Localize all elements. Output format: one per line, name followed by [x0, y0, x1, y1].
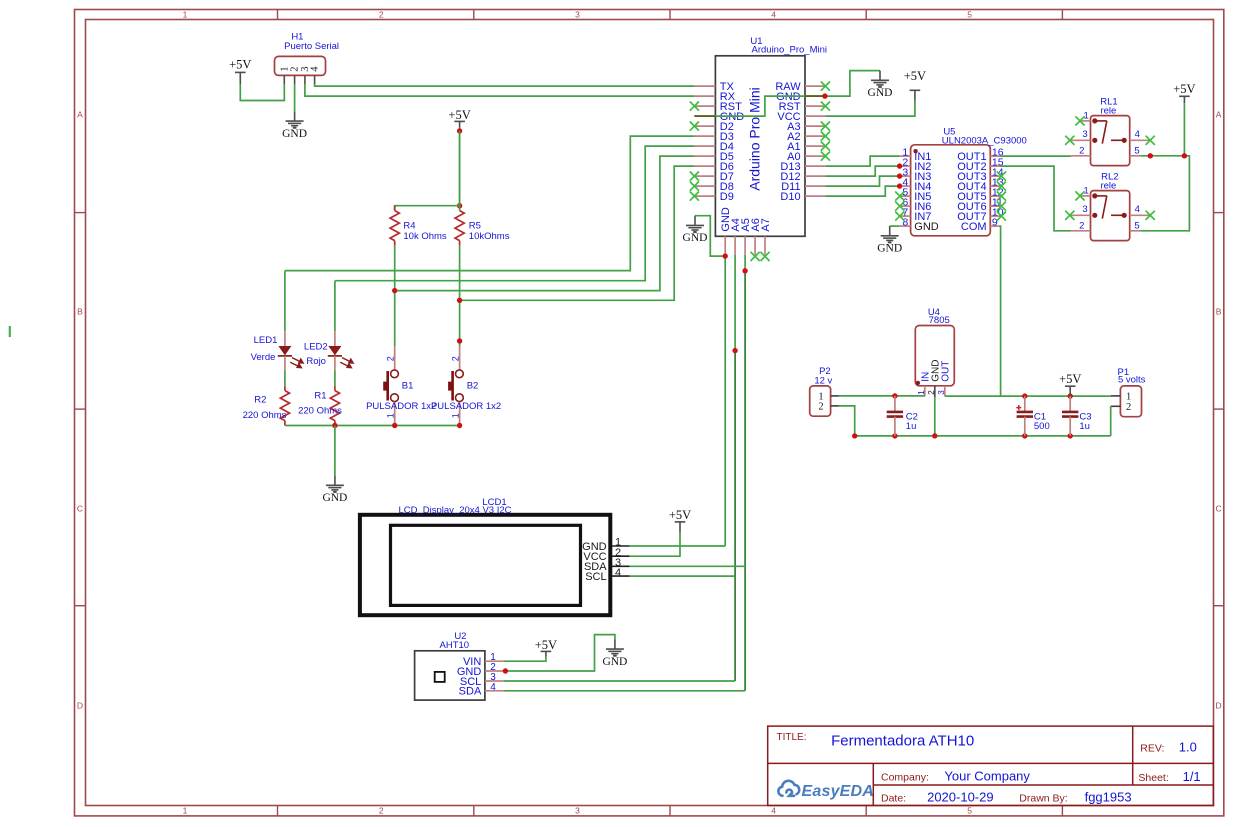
- display LCD1 outer body: [360, 515, 610, 615]
- svg-text:2: 2: [818, 402, 823, 413]
- junction at R4/R5 split: [457, 203, 462, 208]
- svg-text:+5V: +5V: [535, 638, 557, 652]
- svg-text:12 v: 12 v: [814, 375, 832, 386]
- svg-text:Rojo: Rojo: [306, 356, 326, 367]
- wire U2 VIN to +5V: [504, 657, 546, 662]
- wire U1 D11 to U5 IN3: [825, 176, 899, 186]
- svg-text:GND: GND: [322, 492, 347, 504]
- ground GND at U2: [606, 640, 624, 654]
- capacitor C2: [894, 396, 896, 412]
- svg-text:Arduino Pro Mini: Arduino Pro Mini: [747, 87, 763, 191]
- junction C2 top: [892, 393, 897, 398]
- resistor R1: [334, 386, 336, 390]
- wire U1 D10 to U5 IN4: [825, 186, 899, 196]
- svg-text:1/1: 1/1: [1183, 769, 1201, 784]
- svg-text:PULSADOR 1x2: PULSADOR 1x2: [431, 401, 501, 412]
- svg-text:+5V: +5V: [1059, 372, 1081, 386]
- svg-text:220 Ohms: 220 Ohms: [243, 410, 287, 421]
- RL2 contact symbol: [1093, 194, 1126, 219]
- resistor R2: [284, 386, 286, 390]
- wire LCD SDA to A5 column: [630, 565, 745, 567]
- wire LED2 to R1: [334, 370, 336, 386]
- wire LCD SCL to A4 column: [630, 575, 735, 577]
- junction on B2 column: [457, 338, 462, 343]
- svg-text:REV:: REV:: [1140, 743, 1164, 755]
- svg-text:LED1: LED1: [254, 335, 278, 346]
- svg-text:GND: GND: [877, 243, 902, 255]
- resistor R5: [459, 131, 461, 211]
- wire bus to LED2: [334, 281, 336, 332]
- junction on A4 column: [732, 348, 737, 353]
- sensor U2 AHT10 body: [415, 651, 485, 700]
- svg-text:1: 1: [917, 390, 926, 395]
- wire U4 GND to ground rail: [934, 397, 936, 436]
- svg-text:2: 2: [927, 390, 936, 395]
- wire H1 pin 4 to U1 TX: [315, 84, 695, 86]
- wire R4 to B1: [394, 245, 396, 346]
- ground GND below rail: [326, 476, 344, 490]
- power flag +5V at relays: [1179, 96, 1190, 103]
- wire U1 A4 vertical to AHT10 SCL: [734, 255, 736, 351]
- U5 right pin stubs: [990, 156, 1001, 226]
- svg-text:B2: B2: [467, 380, 479, 391]
- junction U2 GND pin: [503, 668, 508, 673]
- wire RL1 pin 5 to +5V and RL2 pin 5: [1140, 156, 1189, 231]
- svg-text:4: 4: [615, 567, 621, 579]
- svg-text:4: 4: [1135, 129, 1140, 140]
- wire LED1 to R2: [284, 370, 286, 386]
- svg-text:2: 2: [1079, 220, 1084, 231]
- ground GND below U1 left: [686, 216, 704, 230]
- junction +5V relay rail: [1182, 153, 1187, 158]
- power flag +5V at C3: [1065, 386, 1076, 396]
- svg-text:4: 4: [490, 682, 496, 693]
- svg-text:9: 9: [992, 217, 998, 229]
- svg-text:1: 1: [1126, 392, 1131, 403]
- svg-text:GND: GND: [602, 656, 627, 668]
- svg-text:3: 3: [1082, 129, 1087, 140]
- U1 no-connect marks A6 A7: [751, 252, 760, 261]
- svg-text:LCD_Display_20x4 V3 I2C: LCD_Display_20x4 V3 I2C: [398, 505, 511, 516]
- junction rail R1: [332, 423, 337, 428]
- junction RL1 pin5 wire: [1148, 153, 1153, 158]
- wire U4 OUT to P1 pin1: [945, 395, 1111, 397]
- wire P2 pin2 to ground rail: [839, 406, 855, 436]
- wire LCD VCC to +5V: [630, 532, 680, 556]
- svg-text:GND: GND: [282, 128, 307, 140]
- junction C3 top +5V: [1068, 393, 1073, 398]
- svg-text:Arduino_Pro_Mini: Arduino_Pro_Mini: [752, 45, 828, 56]
- U2 orientation square: [435, 672, 445, 682]
- wire overlap olive on U1 GND stubs: [694, 115, 715, 117]
- U4 pin1 marker dot: [916, 381, 920, 385]
- U5 left pin stubs: [900, 156, 911, 226]
- svg-text:5: 5: [967, 806, 972, 816]
- svg-text:4: 4: [771, 806, 776, 816]
- LED LED1 Verde: [284, 331, 286, 346]
- svg-text:A: A: [1216, 109, 1222, 119]
- svg-text:2: 2: [451, 356, 461, 361]
- svg-text:fgg1953: fgg1953: [1085, 789, 1132, 804]
- wire LCD GND to U1 GND column: [630, 545, 725, 547]
- svg-text:1: 1: [386, 413, 396, 418]
- ground GND at U5: [881, 226, 899, 240]
- title block outline: [768, 726, 1214, 805]
- wire U2 GND to ground: [504, 635, 615, 671]
- svg-text:1: 1: [183, 806, 188, 816]
- svg-text:C: C: [1216, 503, 1222, 513]
- power flag +5V at H1: [235, 72, 246, 84]
- svg-text:TITLE:: TITLE:: [777, 732, 807, 743]
- svg-text:220 Ohms: 220 Ohms: [298, 406, 342, 417]
- svg-text:3: 3: [575, 806, 580, 816]
- svg-text:4: 4: [310, 66, 321, 72]
- svg-text:SCL: SCL: [585, 571, 606, 583]
- wire U1 D13 to U5 IN1: [825, 156, 899, 166]
- svg-text:2: 2: [379, 806, 384, 816]
- svg-text:2020-10-29: 2020-10-29: [927, 789, 994, 804]
- relay RL2 body: [1091, 191, 1130, 241]
- svg-text:1.0: 1.0: [1179, 739, 1197, 754]
- wire U1 D12 to U5 IN2: [825, 166, 899, 176]
- junction at IN4: [897, 183, 902, 188]
- svg-text:A7: A7: [760, 218, 772, 231]
- svg-text:C: C: [77, 503, 83, 513]
- junction at U1 GND right pin: [822, 93, 827, 98]
- svg-text:10kOhms: 10kOhms: [469, 231, 510, 242]
- U1 left pin stubs: [694, 86, 715, 196]
- svg-text:2: 2: [386, 356, 396, 361]
- svg-text:+5V: +5V: [669, 508, 691, 522]
- junction below +5V flag: [457, 128, 462, 133]
- ground GND at H1: [286, 111, 304, 125]
- relay RL1 body: [1091, 116, 1130, 166]
- svg-text:D: D: [1216, 700, 1222, 710]
- wire U1 D5 to B1 bus: [395, 156, 695, 291]
- svg-text:A: A: [77, 109, 83, 119]
- svg-text:R1: R1: [314, 391, 326, 402]
- wire rail up to P1 pin2: [1110, 406, 1112, 436]
- power flag +5V at U2: [541, 651, 552, 656]
- U5 pin1 marker dot: [913, 149, 917, 153]
- svg-text:rele: rele: [1100, 180, 1116, 191]
- connector H1 Puerto Serial: [275, 56, 326, 75]
- svg-text:B: B: [77, 306, 83, 316]
- svg-text:2: 2: [1079, 145, 1084, 156]
- wire U1 D6 to B2 bus: [460, 166, 695, 300]
- U1 bottom pin stubs: [725, 236, 765, 254]
- svg-text:2: 2: [379, 9, 384, 19]
- wire U1 GND bottom vertical to LCD GND: [724, 255, 726, 546]
- svg-text:500: 500: [1034, 421, 1050, 432]
- wire bus to LED1: [284, 271, 286, 332]
- svg-text:SDA: SDA: [459, 686, 482, 698]
- svg-text:1: 1: [183, 9, 188, 19]
- power flag +5V at LCD: [675, 522, 686, 533]
- svg-text:+5V: +5V: [448, 108, 470, 122]
- op-amp U1 Arduino_Pro_Mini body: [715, 56, 805, 237]
- junction R4 bus D5: [392, 288, 397, 293]
- svg-text:AHT10: AHT10: [440, 640, 470, 651]
- junction rail B2: [457, 423, 462, 428]
- wire ground rail LEDs and buttons: [285, 425, 460, 427]
- IC U5 ULN2003A_C93000 body: [911, 145, 991, 236]
- svg-text:EasyEDA: EasyEDA: [802, 783, 875, 800]
- svg-text:3: 3: [1082, 204, 1087, 215]
- U5 no-connect OUT3-OUT7: [997, 172, 1006, 181]
- svg-text:+5V: +5V: [1173, 82, 1195, 96]
- RL1 no-connect marks: [1075, 116, 1084, 125]
- svg-text:1: 1: [451, 413, 461, 418]
- stray wire mark left edge: [9, 326, 11, 337]
- svg-text:1u: 1u: [906, 421, 917, 432]
- wire U5 OUT2 to RL2 pin 2: [1001, 166, 1070, 231]
- svg-text:Your Company: Your Company: [944, 768, 1030, 783]
- svg-text:B1: B1: [402, 380, 414, 391]
- svg-text:2: 2: [1126, 402, 1131, 413]
- svg-text:D10: D10: [780, 191, 800, 203]
- junction C1 top: [1022, 393, 1027, 398]
- RL2 pin stubs: [1071, 196, 1150, 231]
- wire H1 pin 2 to ground: [294, 84, 296, 111]
- svg-text:10k Ohms: 10k Ohms: [403, 231, 447, 242]
- power flag +5V above R5: [454, 121, 465, 127]
- wire rail to ground symbol: [334, 426, 336, 476]
- svg-text:7805: 7805: [929, 315, 950, 326]
- svg-text:4: 4: [1135, 204, 1140, 215]
- junction rail P2: [852, 433, 857, 438]
- wire U1 D3 to LED1 bus: [285, 136, 695, 271]
- resistor R4: [394, 206, 396, 211]
- wire U5 OUT1 to RL1 pin 2: [1001, 155, 1070, 157]
- svg-text:1u: 1u: [1079, 421, 1090, 432]
- svg-text:R2: R2: [254, 395, 266, 406]
- pushbutton B1: [394, 346, 396, 370]
- regulator U4 7805 body: [915, 326, 954, 386]
- wire U2 SDA to A5 column: [504, 690, 745, 692]
- svg-text:5 volts: 5 volts: [1118, 375, 1146, 386]
- junction rail C2: [892, 433, 897, 438]
- U1 no-connect marks right: [821, 82, 830, 91]
- svg-text:+5V: +5V: [229, 57, 251, 71]
- svg-text:3: 3: [575, 9, 580, 19]
- wire U5 GND pin to ground: [890, 225, 900, 227]
- EasyEDA logo: [778, 781, 799, 796]
- junction U1 GND bottom: [723, 253, 728, 258]
- wire +5V down R5 column: [459, 128, 461, 206]
- wire H1 pin 3 to U1 RX: [305, 84, 695, 96]
- U5 no-connect IN5 IN6 IN7: [895, 192, 904, 201]
- RL2 no-connect marks: [1075, 191, 1084, 200]
- U4 pin stubs: [924, 386, 926, 396]
- svg-text:B: B: [1216, 306, 1222, 316]
- wire U1 D4 to LED2 bus: [335, 146, 695, 281]
- junction at IN3: [897, 173, 902, 178]
- junction rail C3: [1068, 433, 1073, 438]
- svg-text:Company:: Company:: [881, 772, 929, 784]
- pushbutton B2: [459, 346, 461, 370]
- junction at IN2: [897, 163, 902, 168]
- wire ground rail bottom: [855, 435, 1111, 437]
- junction R5 bus D6: [457, 298, 462, 303]
- svg-text:GND: GND: [914, 221, 939, 233]
- svg-text:4: 4: [771, 9, 776, 19]
- wire U2 SCL to A4 column: [504, 680, 735, 682]
- junction rail C1: [1022, 433, 1027, 438]
- U1 right pin stubs: [805, 86, 825, 196]
- svg-text:3: 3: [937, 390, 946, 395]
- svg-text:5: 5: [1134, 220, 1139, 231]
- wire U1 GND bottom to ground symbol: [695, 216, 725, 256]
- wire +5V rail to R4: [395, 206, 460, 211]
- svg-text:PULSADOR 1x2: PULSADOR 1x2: [366, 401, 436, 412]
- svg-text:Puerto Serial: Puerto Serial: [284, 41, 339, 52]
- wire U5 COM down to +5V rail: [1000, 226, 1003, 396]
- svg-text:OUT: OUT: [941, 361, 952, 382]
- wire +5V to H1 pin 1: [240, 84, 284, 101]
- svg-text:5: 5: [967, 9, 972, 19]
- svg-text:D9: D9: [720, 191, 734, 203]
- ground GND near U1 top right: [871, 71, 889, 85]
- junction on A5 column: [742, 268, 747, 273]
- capacitor C1 polarized: [1024, 396, 1026, 412]
- LED LED2 Rojo: [334, 331, 336, 346]
- svg-text:5: 5: [1134, 145, 1139, 156]
- wire P2 pin1 to U4 IN: [839, 395, 925, 397]
- junction rail U4 GND: [932, 433, 937, 438]
- svg-text:GND: GND: [868, 87, 893, 99]
- power flag +5V at U1 VCC: [910, 90, 921, 101]
- wire U1 GND-left across body to GND-right: [694, 71, 880, 117]
- RL1 pin stubs: [1071, 121, 1150, 156]
- capacitor C3: [1069, 396, 1071, 412]
- svg-text:D: D: [77, 700, 83, 710]
- connector P1 5 volts: [1120, 386, 1141, 417]
- svg-text:Verde: Verde: [251, 352, 276, 363]
- svg-text:Drawn By:: Drawn By:: [1019, 793, 1067, 805]
- U1 no-connect marks left: [690, 102, 699, 111]
- svg-text:+5V: +5V: [904, 69, 926, 83]
- wire U1 A5 vertical to AHT10 SDA: [744, 255, 746, 271]
- svg-text:COM: COM: [961, 221, 987, 233]
- svg-text:rele: rele: [1100, 105, 1116, 116]
- LCD1 pin stubs: [612, 546, 630, 576]
- svg-text:Fermentadora ATH10: Fermentadora ATH10: [831, 733, 974, 750]
- U2 pin stubs: [485, 661, 504, 691]
- display LCD1 inner window: [391, 525, 581, 605]
- svg-text:ULN2003A_C93000: ULN2003A_C93000: [942, 135, 1027, 146]
- svg-text:LED2: LED2: [304, 342, 328, 353]
- wire U1 VCC to +5V: [825, 101, 915, 116]
- wire R5 to B2: [459, 245, 461, 346]
- svg-text:Date:: Date:: [881, 793, 906, 805]
- svg-text:Sheet:: Sheet:: [1138, 772, 1168, 784]
- connector P2 12v: [810, 386, 831, 416]
- RL1 contact symbol: [1093, 119, 1126, 144]
- junction rail B1: [392, 423, 397, 428]
- svg-text:GND: GND: [683, 232, 708, 244]
